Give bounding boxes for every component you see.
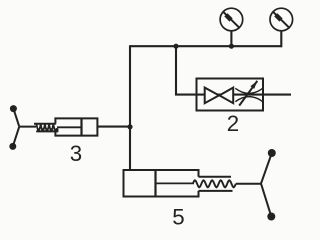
gripper 5 jaw lower ball: [267, 213, 275, 221]
wire gauge 4 drop: [230, 31, 232, 47]
gripper 3 jaw lower ball: [9, 143, 16, 150]
wire top horizontal bus: [130, 45, 281, 47]
throttle adjust arrow: [239, 81, 257, 106]
gripper 5 (bottom actuator): [124, 149, 276, 221]
wire branch down to valve 2: [176, 46, 197, 94]
junction node branch to valve 2: [173, 44, 178, 49]
junction node gripper 3 port on bus: [127, 124, 132, 129]
gripper 3 (left actuator): [9, 105, 97, 150]
svg-text:3: 3: [70, 141, 82, 166]
gripper 5 jaw upper arm: [261, 153, 272, 184]
gripper 5 piston: [154, 170, 156, 197]
pressure gauge 6 (right): [270, 8, 293, 31]
gripper 5 body: [124, 170, 199, 197]
wire valve 2 output (open end): [263, 94, 291, 96]
gripper 3 body: [55, 118, 97, 135]
pressure gauge 4 (left): [220, 8, 243, 31]
check valve triangle left: [205, 88, 219, 104]
check valve triangle right: [219, 88, 233, 104]
gripper 3 jaw upper arm: [13, 109, 19, 127]
gripper 3 inner rod: [57, 126, 82, 128]
gripper 3 spring coils: [37, 124, 58, 131]
one-way flow control valve 2: [197, 79, 264, 111]
gripper 5 rod: [236, 183, 261, 185]
svg-text:5: 5: [172, 204, 184, 229]
gripper 5 spring bottom rail: [199, 190, 233, 192]
gripper 5 spring top rail: [199, 176, 232, 178]
svg-text:2: 2: [227, 111, 239, 136]
junction node below left gauge: [229, 44, 234, 49]
gripper 3 rod: [19, 126, 36, 128]
gripper 3 jaw upper ball: [10, 105, 17, 112]
gripper 3 spring coil knots: [37, 128, 59, 131]
wire valve 2 through-line: [197, 94, 264, 96]
wire gauge 6 drop with elbow: [280, 31, 281, 47]
valve 2 body box: [197, 79, 264, 111]
gripper 5 jaw lower arm: [261, 184, 271, 217]
gripper 3 spring top rail: [34, 123, 56, 125]
gripper 5 jaw upper ball: [268, 149, 276, 157]
gripper 5 inner rod: [156, 182, 195, 184]
gripper 3 piston: [80, 118, 82, 135]
gripper 3 jaw lower arm: [13, 127, 19, 147]
throttle arc bottom: [235, 97, 262, 102]
throttle arc top: [235, 88, 262, 93]
gripper 3 spring bottom rail: [36, 130, 58, 132]
wire port of gripper 3 to bus: [97, 126, 130, 128]
wire left riser (bus vertical): [129, 45, 131, 171]
gripper 5 spring zigzag: [193, 180, 236, 187]
